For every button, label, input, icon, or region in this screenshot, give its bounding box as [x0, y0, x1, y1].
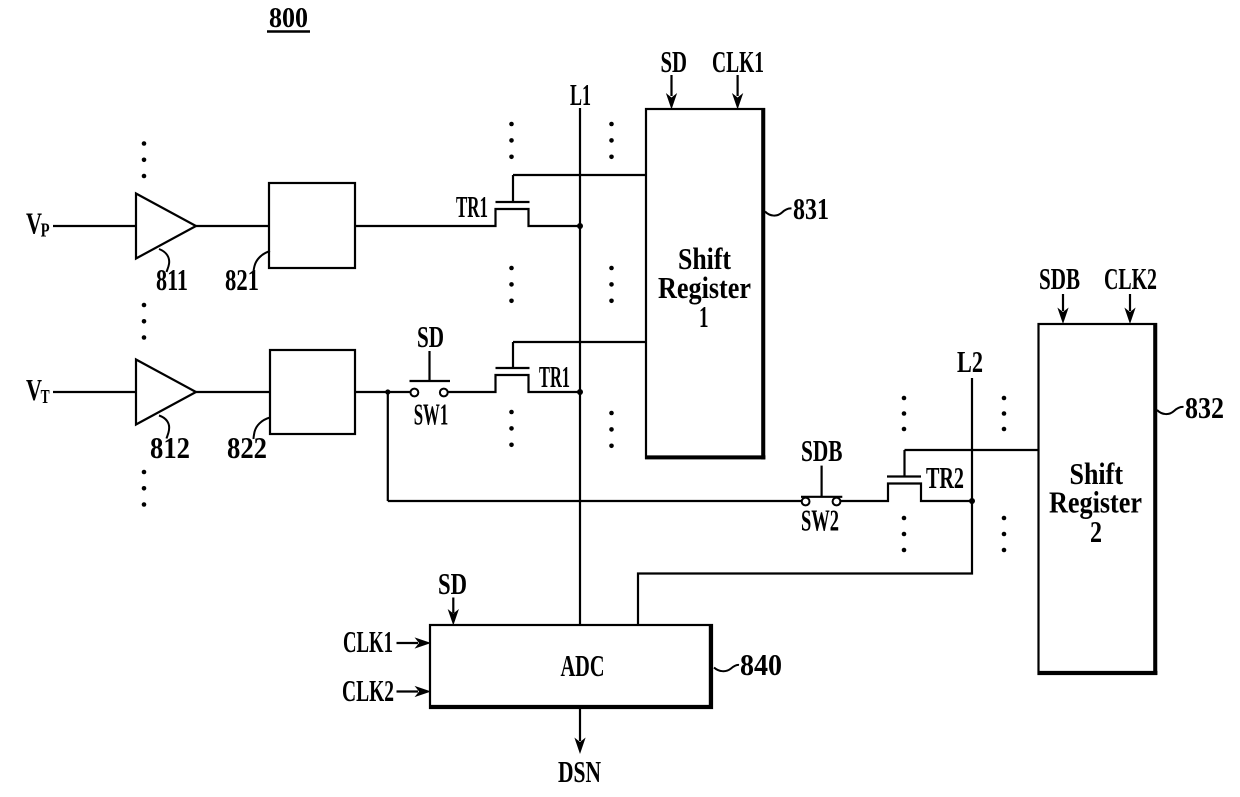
svg-text:T: T: [41, 386, 50, 408]
svg-text:ADC: ADC: [561, 648, 605, 683]
svg-text:832: 832: [1185, 390, 1224, 425]
svg-text:SD: SD: [438, 566, 467, 601]
svg-text:812: 812: [150, 430, 190, 465]
svg-text:TR1: TR1: [456, 189, 488, 224]
svg-text:DSN: DSN: [558, 754, 601, 789]
svg-text:822: 822: [227, 430, 267, 465]
svg-text:831: 831: [793, 191, 829, 226]
svg-text:1: 1: [699, 299, 709, 334]
svg-text:CLK2: CLK2: [1104, 261, 1157, 296]
svg-text:SW2: SW2: [801, 503, 839, 538]
svg-text:SDB: SDB: [1039, 261, 1080, 296]
svg-text:TR1: TR1: [539, 359, 570, 394]
svg-text:P: P: [41, 220, 50, 242]
svg-text:SD: SD: [661, 44, 688, 79]
svg-text:CLK1: CLK1: [712, 44, 764, 79]
svg-text:L1: L1: [570, 77, 591, 112]
svg-text:811: 811: [156, 262, 188, 297]
svg-text:CLK2: CLK2: [342, 673, 394, 708]
svg-text:TR2: TR2: [926, 460, 964, 495]
svg-text:800: 800: [269, 2, 308, 34]
svg-text:840: 840: [740, 647, 782, 682]
svg-text:821: 821: [225, 262, 259, 297]
svg-text:SDB: SDB: [801, 433, 843, 468]
svg-text:SW1: SW1: [414, 397, 449, 432]
svg-text:2: 2: [1090, 514, 1102, 549]
svg-text:SD: SD: [417, 319, 444, 354]
svg-text:CLK1: CLK1: [343, 624, 393, 659]
svg-text:L2: L2: [957, 344, 983, 379]
